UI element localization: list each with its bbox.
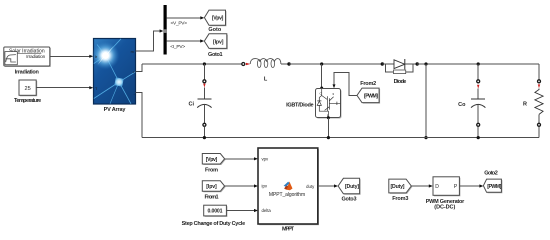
svg-text:From: From xyxy=(205,168,218,174)
resistor R xyxy=(523,64,543,138)
wire top rail left xyxy=(142,63,243,65)
svg-text:25: 25 xyxy=(24,86,30,92)
goto Goto1 [Ipv] xyxy=(204,34,228,58)
svg-text:Goto3: Goto3 xyxy=(342,197,357,203)
svg-text:[Vpv]: [Vpv] xyxy=(212,16,224,22)
svg-text:(DC-DC): (DC-DC) xyxy=(434,204,455,210)
node Co bottom junction xyxy=(477,136,480,139)
svg-text:Goto2: Goto2 xyxy=(484,171,498,177)
inductor L xyxy=(242,59,291,83)
svg-text:Irradiation: Irradiation xyxy=(15,70,40,76)
svg-text:R: R xyxy=(523,101,527,107)
from From [Vpv] xyxy=(202,154,225,174)
wire From2 to IGBT gate xyxy=(333,73,358,96)
svg-text:vpv: vpv xyxy=(262,156,270,161)
diode Diode xyxy=(381,59,419,85)
svg-text:0.0001: 0.0001 xyxy=(208,209,223,215)
wire PV m to bus selector xyxy=(136,29,164,51)
wire PWM Generator to Goto2 xyxy=(459,184,483,187)
constant 0.0001 xyxy=(182,205,246,227)
wire From to MPPT vpv xyxy=(225,157,258,160)
subsystem Irradiation xyxy=(4,47,51,76)
goto Goto3 [Duty] xyxy=(338,178,361,202)
wire constant to MPPT delta xyxy=(226,209,258,212)
capacitor Ci xyxy=(189,64,212,138)
svg-text:Co: Co xyxy=(458,102,466,108)
IGBT/Diode block xyxy=(286,64,341,138)
wire Temperature to PV T xyxy=(36,86,93,89)
svg-text:[Ipv]: [Ipv] xyxy=(213,39,224,45)
wire bus to Goto1 Ipv xyxy=(167,39,205,50)
node IGBT collector junction xyxy=(320,62,323,65)
svg-text:[Vpv]: [Vpv] xyxy=(206,157,218,163)
svg-text:Step Change of Duty Cycle: Step Change of Duty Cycle xyxy=(182,221,246,227)
svg-text:MPPT: MPPT xyxy=(282,227,295,233)
svg-text:MPPT_algorithm: MPPT_algorithm xyxy=(269,192,305,198)
from From3 [Duty] xyxy=(389,179,413,202)
svg-text:ipv: ipv xyxy=(262,184,268,189)
wire top rail right xyxy=(417,63,539,65)
svg-text:[Ipv]: [Ipv] xyxy=(206,184,217,190)
node Co top junction xyxy=(477,62,480,65)
wire bottom rail xyxy=(142,137,539,139)
wire From3 to PWM Generator xyxy=(411,184,433,187)
node Ci bottom junction xyxy=(203,136,206,139)
wire MPPT duty to Goto3 xyxy=(318,184,338,187)
svg-text:m: m xyxy=(131,50,134,54)
svg-text:From2: From2 xyxy=(360,81,376,87)
subsystem MPPT xyxy=(258,148,319,233)
node IGBT emitter junction xyxy=(327,136,330,139)
svg-text:From3: From3 xyxy=(392,196,408,202)
node Ci top junction xyxy=(203,62,206,65)
wire output vertical link xyxy=(425,64,427,138)
wire PV + to top rail xyxy=(136,64,143,72)
node output junction xyxy=(424,62,427,65)
bus selector xyxy=(163,5,167,55)
svg-text:[Duty]: [Duty] xyxy=(391,184,405,190)
svg-text:<I_PV>: <I_PV> xyxy=(170,44,185,50)
svg-text:<V_PV>: <V_PV> xyxy=(171,21,188,27)
svg-text:[PWM]: [PWM] xyxy=(487,184,501,190)
svg-text:[PWM]: [PWM] xyxy=(364,93,378,99)
svg-text:Goto1: Goto1 xyxy=(208,52,223,58)
svg-text:Diode: Diode xyxy=(394,79,407,85)
svg-text:Goto: Goto xyxy=(208,27,221,33)
svg-text:PV Array: PV Array xyxy=(104,107,127,113)
svg-text:[Duty]: [Duty] xyxy=(345,184,359,190)
PV Array block xyxy=(92,39,136,113)
wire bus to Goto Vpv xyxy=(167,16,205,26)
from From1 [Ipv] xyxy=(202,181,225,201)
svg-text:Irradiation: Irradiation xyxy=(26,54,45,59)
goto Goto2 [PWM] xyxy=(483,171,502,194)
svg-text:duty: duty xyxy=(306,184,315,189)
goto Goto [Vpv] xyxy=(204,10,226,33)
svg-text:Ci: Ci xyxy=(189,101,195,107)
svg-text:D: D xyxy=(435,184,439,190)
wire From1 to MPPT ipv xyxy=(225,184,258,187)
block PWM Generator (DC-DC) xyxy=(426,177,465,211)
wire PV - to bottom rail xyxy=(136,92,143,137)
wire Irradiation to PV Ir xyxy=(50,55,94,58)
svg-text:delta: delta xyxy=(262,208,272,213)
svg-text:IGBT/Diode: IGBT/Diode xyxy=(286,102,314,108)
matlab logo xyxy=(284,182,293,191)
constant Temperature 25 xyxy=(14,80,41,104)
wire L to diode xyxy=(289,63,382,65)
from From2 [PWM] xyxy=(357,81,380,104)
svg-text:Temperature: Temperature xyxy=(14,98,41,104)
svg-text:From1: From1 xyxy=(205,195,219,201)
capacitor Co xyxy=(458,64,485,138)
